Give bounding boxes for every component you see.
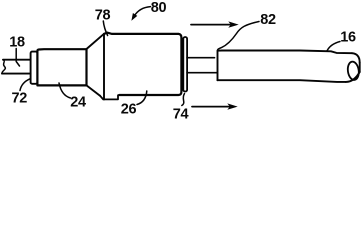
svg-text:24: 24	[70, 95, 86, 111]
label 26 leader	[137, 91, 147, 105]
tube 16	[218, 51, 353, 81]
bottom flow arrow	[192, 106, 230, 108]
tube 18 (small shaft at far left)	[2, 60, 31, 74]
top flow arrowhead	[228, 21, 238, 27]
taper bottom (24 to 26)	[87, 85, 101, 95]
svg-text:72: 72	[12, 91, 28, 107]
body 26	[103, 34, 105, 100]
lip at bottom of 26	[100, 95, 119, 99]
top flow arrow	[191, 24, 230, 26]
label 72 leader	[20, 79, 30, 91]
label 80 arrowhead	[131, 13, 137, 21]
svg-text:80: 80	[151, 0, 167, 16]
shaft between plate and tube 16	[187, 57, 214, 59]
label 82 leader	[218, 22, 260, 51]
label 80 leader arrow	[134, 7, 150, 16]
end plate 74	[183, 37, 187, 92]
svg-text:26: 26	[121, 102, 137, 118]
body 24	[37, 49, 86, 85]
reference numerals	[9, 0, 356, 122]
flange 72	[31, 52, 38, 84]
label 74 leader	[182, 94, 185, 106]
svg-text:16: 16	[340, 30, 356, 46]
label 16 leader	[327, 42, 340, 51]
ellipse (open end of tube 16)	[347, 61, 360, 81]
svg-text:82: 82	[260, 12, 276, 28]
svg-text:18: 18	[9, 34, 25, 50]
taper top (24 to 26)	[87, 34, 105, 49]
bottom flow arrowhead	[227, 103, 237, 109]
label 24 leader	[59, 83, 71, 98]
label 18 leader	[16, 49, 19, 67]
label 78 leader	[103, 21, 107, 36]
svg-text:74: 74	[173, 107, 189, 121]
svg-text:78: 78	[95, 8, 111, 24]
